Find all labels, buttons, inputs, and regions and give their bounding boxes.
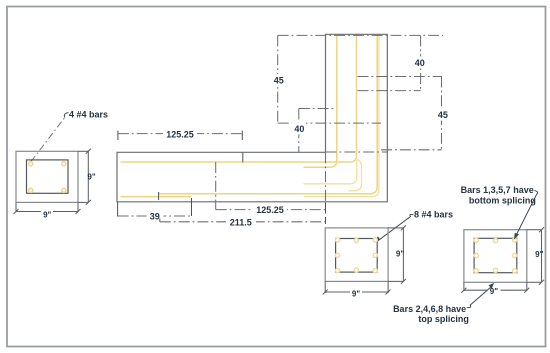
middle section right 9" dimension xyxy=(388,225,406,284)
left cross-section: stirrup xyxy=(27,160,69,193)
right 45 dimension xyxy=(441,77,443,150)
svg-text:9": 9" xyxy=(352,289,360,298)
rebar: second top bar hooking into left column bar xyxy=(304,35,337,168)
right section bars (8) xyxy=(474,238,517,273)
left section right 9" dimension xyxy=(78,149,91,205)
svg-text:top splicing: top splicing xyxy=(418,314,469,324)
svg-text:bottom splicing: bottom splicing xyxy=(469,195,536,205)
211.5 dimension xyxy=(159,219,161,222)
L-shaped beam and column outline xyxy=(117,34,387,202)
column top centerline xyxy=(278,34,443,36)
svg-text:45: 45 xyxy=(274,76,284,86)
svg-text:4 #4 bars: 4 #4 bars xyxy=(69,110,108,120)
right section bottom 9" dimension xyxy=(461,282,529,292)
middle section bars (8) xyxy=(335,238,377,273)
39 dimension xyxy=(117,202,119,217)
hidden beam top edge through column (centerline) xyxy=(326,151,388,153)
left 45 dimension bracket xyxy=(277,35,279,123)
left cross-section: outer square xyxy=(16,151,78,202)
left section bars (4) xyxy=(29,162,66,193)
splice tick on bottom bar xyxy=(158,192,160,200)
svg-text:Bars 1,3,5,7 have: Bars 1,3,5,7 have xyxy=(461,185,534,195)
rebar: short splice bar in joint xyxy=(304,160,357,184)
svg-text:9": 9" xyxy=(396,250,404,259)
svg-text:45: 45 xyxy=(438,110,448,120)
right cross-section: outer square xyxy=(464,230,527,283)
svg-text:39: 39 xyxy=(150,211,160,221)
svg-text:211.5: 211.5 xyxy=(230,218,252,228)
svg-text:9": 9" xyxy=(490,287,498,296)
svg-text:125.25: 125.25 xyxy=(166,130,194,140)
rebar: bottom bar in beam hooking into right column bar xyxy=(159,35,378,194)
rebar: bottom-most left bar piece xyxy=(121,196,192,198)
svg-text:Bars 2,4,6,8 have: Bars 2,4,6,8 have xyxy=(393,304,466,314)
rebar: cranked column bar end with hook in joint xyxy=(349,160,362,191)
svg-text:9": 9" xyxy=(43,210,51,219)
right section right 9" dimension xyxy=(527,227,544,285)
svg-text:8 #4 bars: 8 #4 bars xyxy=(414,209,453,219)
rebar: second bottom bar hooking outside right column bar xyxy=(304,35,379,197)
svg-text:125.25: 125.25 xyxy=(256,205,284,215)
left 40 dimension bracket xyxy=(298,109,300,153)
extension line from top bar to bottom 125.25 dim xyxy=(215,162,217,210)
svg-text:40: 40 xyxy=(294,124,304,134)
middle cross-section: outer square xyxy=(325,228,388,282)
middle section bottom 9" dimension xyxy=(323,281,391,294)
top 125.25 dimension xyxy=(117,131,119,140)
rebar: top bar in beam hooking into middle column bar xyxy=(121,35,357,162)
left section bottom 9" dimension xyxy=(14,202,81,214)
svg-text:9": 9" xyxy=(535,250,543,259)
svg-text:40: 40 xyxy=(415,58,425,68)
hidden column edge through beam (centerline) xyxy=(325,152,327,213)
right 40 dimension xyxy=(420,35,422,90)
bottom 125.25 dimension xyxy=(216,209,326,211)
svg-text:9": 9" xyxy=(87,173,95,182)
middle cross-section: stirrup xyxy=(336,239,378,273)
right cross-section: stirrup xyxy=(474,238,517,272)
